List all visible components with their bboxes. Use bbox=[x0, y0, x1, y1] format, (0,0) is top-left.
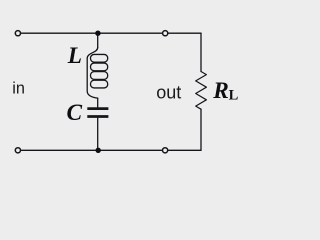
terminal out+ bbox=[163, 31, 168, 36]
capacitor C plate bottom bbox=[87, 115, 108, 118]
inductor L spine bbox=[87, 48, 98, 99]
svg-text:in: in bbox=[12, 80, 25, 98]
svg-text:C: C bbox=[67, 100, 83, 126]
resistor RL zigzag bbox=[196, 72, 207, 110]
node junction top bbox=[95, 31, 100, 36]
svg-text:L: L bbox=[67, 43, 82, 69]
terminal out- bbox=[163, 148, 168, 153]
inductor L loop 4 bbox=[91, 80, 108, 88]
wire right branch top bbox=[200, 33, 202, 71]
inductor L loop 2 bbox=[91, 63, 108, 71]
svg-text:L: L bbox=[229, 87, 239, 103]
terminal in+ bbox=[15, 31, 20, 36]
wire right branch bottom bbox=[200, 109, 202, 150]
wire capacitor to bottom rail bbox=[97, 118, 99, 151]
wire bottom rail left segment bbox=[21, 149, 161, 151]
wire inductor to capacitor bbox=[97, 98, 99, 107]
terminal in- bbox=[15, 148, 20, 153]
wire middle branch top lead bbox=[97, 33, 99, 47]
inductor L loop 3 bbox=[91, 72, 108, 80]
wire bottom rail right segment bbox=[169, 149, 202, 151]
svg-text:R: R bbox=[212, 78, 229, 104]
wire top rail left segment bbox=[21, 32, 161, 34]
wire top rail right segment bbox=[169, 32, 201, 34]
svg-text:out: out bbox=[156, 83, 181, 103]
inductor L loop 1 bbox=[91, 54, 108, 62]
capacitor C plate top bbox=[87, 107, 108, 110]
node junction bottom bbox=[96, 148, 101, 153]
